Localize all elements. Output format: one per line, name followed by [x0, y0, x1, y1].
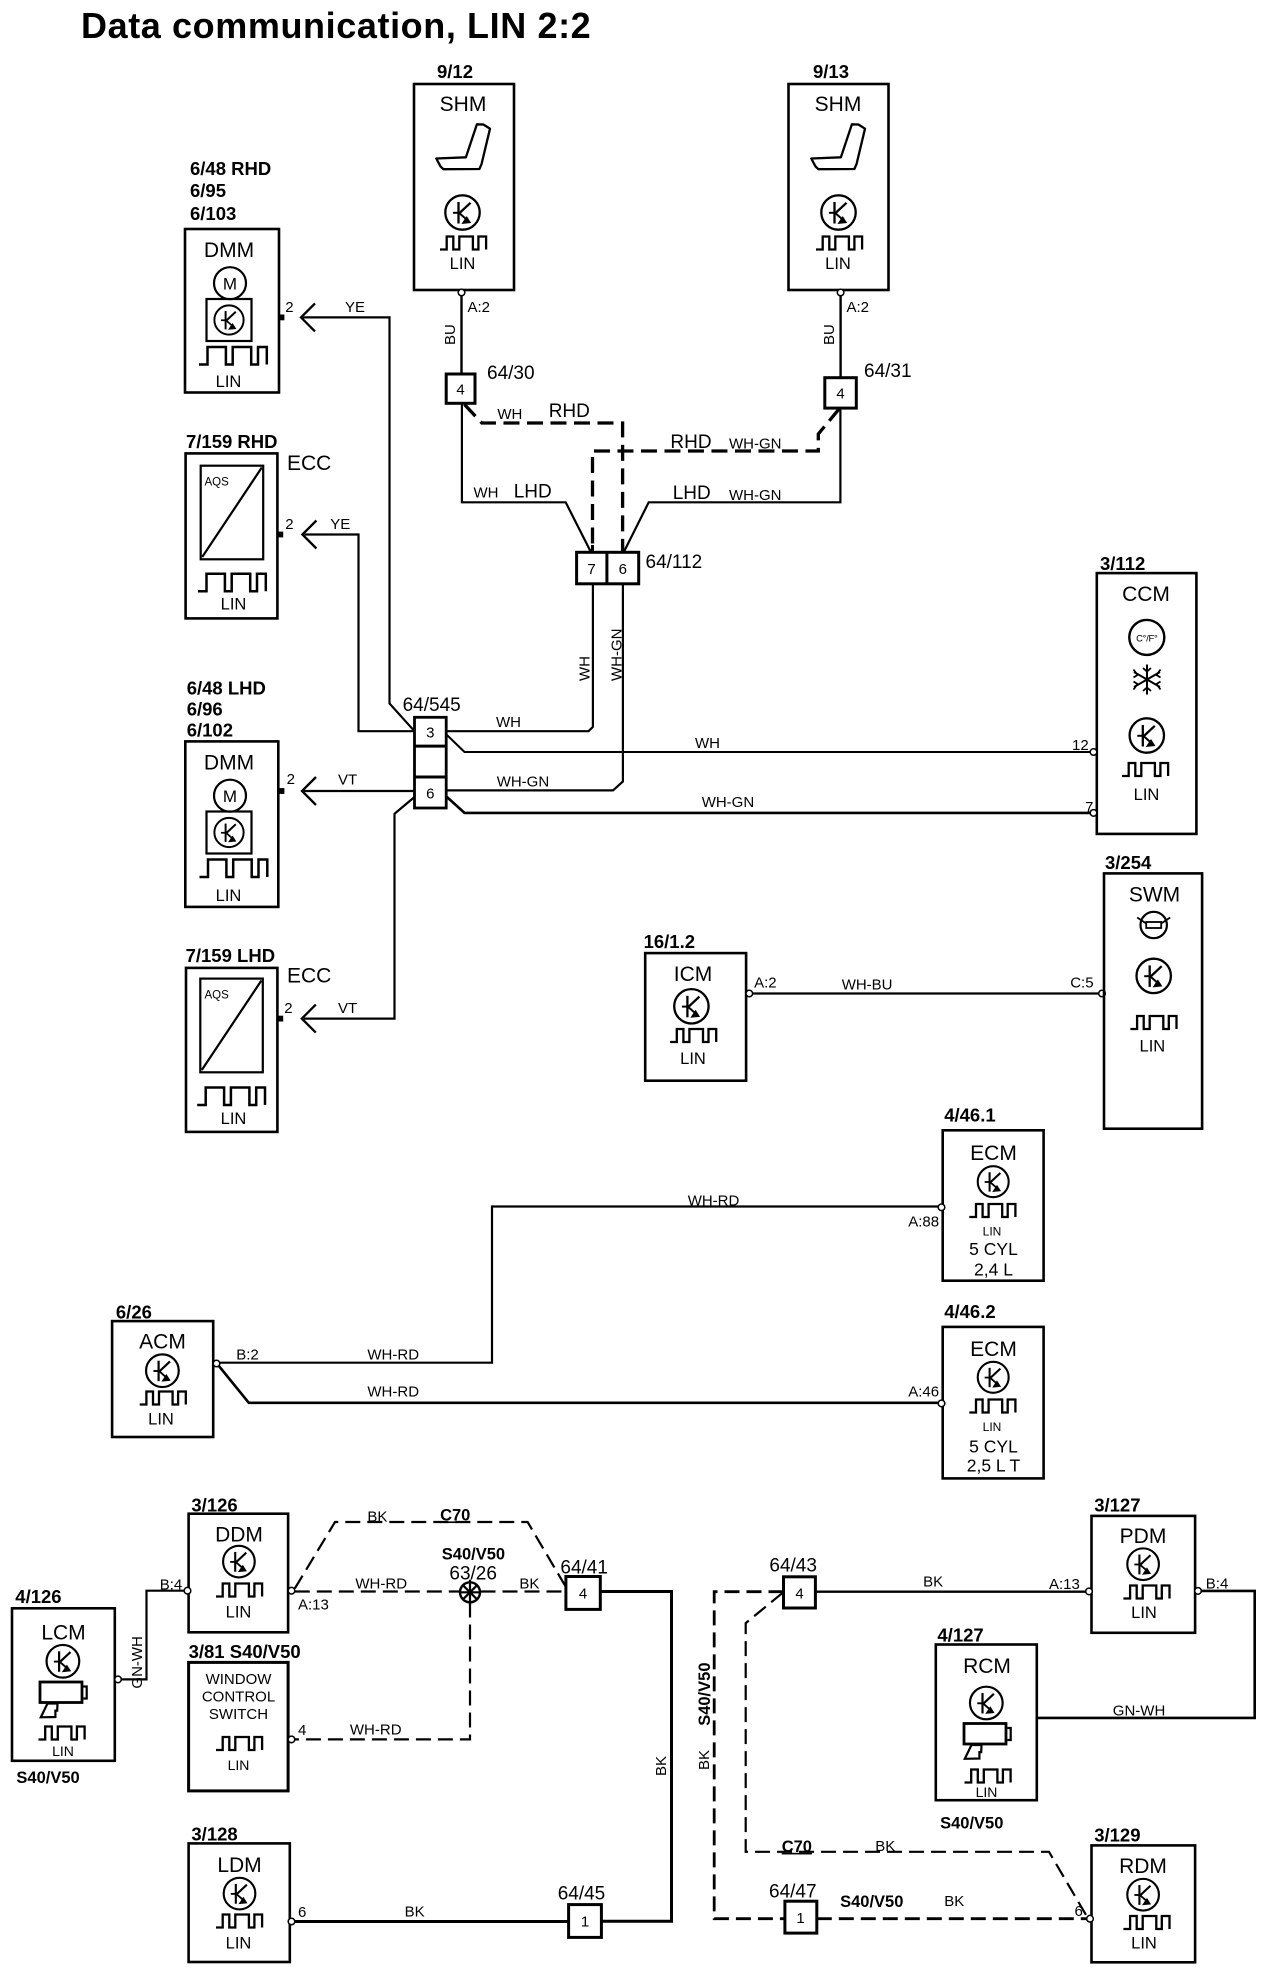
- svg-text:BK: BK: [923, 1574, 943, 1591]
- wire GN-WH from PDM B:4 to RCM: [1037, 1591, 1255, 1718]
- svg-text:WH: WH: [496, 714, 521, 731]
- wire WH RHD from 64/30 to 64/112 pin 6 (dashed): [465, 405, 623, 553]
- svg-text:6: 6: [298, 1904, 306, 1921]
- component DMM 6/48 RHD: [185, 158, 279, 393]
- connector 64/545 pins 3 and 6: [403, 695, 461, 808]
- svg-text:LIN: LIN: [1131, 1604, 1157, 1622]
- svg-text:SWM: SWM: [1129, 884, 1180, 907]
- component ECC 7/159 RHD: [186, 431, 332, 618]
- wire YE from DMM 6/48 RHD pin 2 to 64/545 pin 3: [301, 303, 315, 331]
- svg-text:A:2: A:2: [754, 975, 777, 992]
- svg-text:A:88: A:88: [908, 1214, 939, 1231]
- connector 64/45 pin 1: [558, 1884, 606, 1938]
- pin 2 of DMM 6/48 RHD: [279, 315, 285, 321]
- terminal 12 of CCM: [1090, 749, 1097, 756]
- svg-text:4: 4: [836, 386, 844, 403]
- terminal A:13 of PDM: [1086, 1588, 1093, 1595]
- svg-text:S40/V50: S40/V50: [840, 1893, 903, 1911]
- wire WH-RD from ACM B:2 to ECM 4/46.2 A:46: [219, 1366, 939, 1403]
- svg-text:7: 7: [1085, 799, 1093, 816]
- connector 64/43 pin 4: [769, 1556, 817, 1609]
- svg-text:BK: BK: [875, 1838, 895, 1855]
- terminal of LCM: [115, 1676, 122, 1683]
- svg-text:WH: WH: [497, 406, 522, 423]
- svg-text:ECC: ECC: [287, 965, 331, 988]
- svg-text:RHD: RHD: [670, 432, 711, 453]
- svg-text:ICM: ICM: [674, 963, 713, 986]
- svg-text:C°/F°: C°/F°: [1136, 634, 1158, 645]
- svg-text:64/545: 64/545: [403, 695, 461, 716]
- svg-text:S40/V50: S40/V50: [696, 1662, 714, 1725]
- pin 2 of ECC 7/159 LHD: [277, 1016, 283, 1022]
- wire WH-RD dashed from DDM A:13 to splice 63/26: [295, 1590, 460, 1592]
- svg-text:3/128: 3/128: [191, 1824, 237, 1845]
- svg-text:2: 2: [285, 516, 293, 533]
- svg-text:ACM: ACM: [139, 1331, 186, 1354]
- svg-text:6/26: 6/26: [116, 1301, 152, 1322]
- svg-text:6: 6: [426, 786, 434, 803]
- svg-text:WH-BU: WH-BU: [842, 976, 893, 993]
- svg-text:WH-GN: WH-GN: [609, 629, 626, 682]
- svg-text:LIN: LIN: [983, 1225, 1002, 1239]
- wire WH-GN from 64/545 pin 6 to CCM pin 7: [446, 797, 1090, 813]
- svg-text:64/112: 64/112: [646, 552, 703, 573]
- wire BK dashed C70 from 64/43 down to RDM: [746, 1593, 1088, 1918]
- wire WH-GN from 64/112 pin 6 down to 64/545 pin 6: [446, 584, 623, 791]
- svg-text:B:4: B:4: [160, 1577, 183, 1594]
- svg-text:C70: C70: [440, 1506, 470, 1524]
- svg-text:ECC: ECC: [287, 452, 331, 475]
- svg-text:SHM: SHM: [440, 93, 487, 116]
- component SHM 9/13: [789, 61, 889, 290]
- svg-text:B:2: B:2: [236, 1347, 259, 1364]
- svg-text:SWITCH: SWITCH: [209, 1706, 268, 1723]
- svg-text:LIN: LIN: [226, 1934, 252, 1952]
- svg-text:BU: BU: [442, 324, 459, 345]
- svg-text:2: 2: [287, 771, 295, 788]
- svg-text:LIN: LIN: [148, 1410, 174, 1428]
- wire BK from LDM to 64/45: [295, 1920, 569, 1923]
- svg-text:VT: VT: [338, 1000, 357, 1017]
- component ECC 7/159 LHD: [186, 945, 332, 1132]
- wire WH-RD dashed from splice to WINDOW CONTROL SWITCH: [295, 1603, 470, 1740]
- svg-text:A:46: A:46: [908, 1384, 939, 1401]
- svg-text:BK: BK: [405, 1904, 425, 1921]
- svg-text:6/103: 6/103: [190, 203, 236, 224]
- svg-text:WH-RD: WH-RD: [367, 1347, 419, 1364]
- svg-text:1: 1: [581, 1914, 589, 1931]
- terminal B:4 of PDM: [1195, 1588, 1202, 1595]
- svg-text:3/254: 3/254: [1105, 852, 1152, 873]
- wire BU from SHM 9/13 to 64/31: [839, 296, 841, 378]
- wire WH from 64/545 pin 3 to CCM pin 12: [446, 735, 1090, 753]
- svg-text:WH-GN: WH-GN: [497, 774, 550, 791]
- wire BK from 64/43 to PDM A:13: [815, 1590, 1085, 1592]
- svg-text:3/112: 3/112: [1100, 553, 1145, 574]
- svg-text:6/96: 6/96: [187, 699, 223, 720]
- svg-text:3/129: 3/129: [1094, 1825, 1140, 1846]
- svg-text:2: 2: [284, 1000, 292, 1017]
- svg-text:3/127: 3/127: [1094, 1495, 1140, 1516]
- terminal A:2 of SHM 9/12: [458, 289, 465, 296]
- svg-text:6: 6: [619, 561, 627, 578]
- svg-text:LIN: LIN: [226, 1604, 252, 1622]
- pin 2 of DMM 6/48 LHD: [279, 788, 285, 794]
- svg-text:DDM: DDM: [215, 1524, 263, 1547]
- svg-text:RCM: RCM: [963, 1655, 1011, 1678]
- svg-text:YE: YE: [330, 516, 350, 533]
- wire WH from 64/112 pin 7 down to 64/545 pin 3: [446, 584, 593, 731]
- svg-text:LIN: LIN: [221, 596, 247, 614]
- svg-text:RHD: RHD: [549, 401, 590, 422]
- svg-text:2: 2: [285, 299, 293, 316]
- svg-text:ECM: ECM: [970, 1142, 1017, 1165]
- component RCM 4/127: [936, 1625, 1037, 1833]
- svg-text:PDM: PDM: [1120, 1525, 1167, 1548]
- svg-text:BK: BK: [653, 1756, 670, 1776]
- svg-text:LIN: LIN: [1134, 786, 1160, 804]
- svg-text:LIN: LIN: [976, 1784, 998, 1800]
- svg-text:LIN: LIN: [216, 373, 242, 391]
- svg-text:3/81 S40/V50: 3/81 S40/V50: [189, 1641, 301, 1662]
- component LCM 4/126: [12, 1586, 115, 1787]
- terminal A:2 of ICM: [746, 990, 753, 997]
- svg-text:64/31: 64/31: [864, 361, 912, 382]
- svg-text:SHM: SHM: [815, 93, 862, 116]
- svg-text:BK: BK: [519, 1576, 539, 1593]
- svg-text:DMM: DMM: [204, 239, 254, 262]
- component ICM 16/1.2: [644, 931, 747, 1081]
- svg-text:WH-GN: WH-GN: [729, 436, 782, 453]
- connector 64/30 pin 4: [446, 363, 534, 403]
- svg-text:LIN: LIN: [680, 1050, 706, 1068]
- svg-text:S40/V50: S40/V50: [442, 1546, 505, 1564]
- svg-text:YE: YE: [345, 299, 365, 316]
- svg-text:LIN: LIN: [983, 1420, 1002, 1434]
- svg-text:LHD: LHD: [673, 483, 711, 504]
- svg-text:A:13: A:13: [1049, 1576, 1080, 1593]
- wire VT from ECC 7/159 LHD pin 2 to 64/545 pin 6: [302, 1005, 316, 1033]
- wire stubs at dashed terminations: [465, 405, 840, 553]
- svg-text:A:13: A:13: [298, 1596, 329, 1613]
- svg-text:WH-GN: WH-GN: [702, 794, 755, 811]
- svg-text:S40/V50: S40/V50: [16, 1769, 79, 1787]
- svg-text:1: 1: [796, 1910, 804, 1927]
- terminal 7 of CCM: [1090, 810, 1097, 817]
- svg-text:S40/V50: S40/V50: [940, 1815, 1003, 1833]
- svg-text:4: 4: [579, 1586, 587, 1603]
- svg-text:C70: C70: [782, 1838, 812, 1856]
- component WINDOW CONTROL SWITCH 3/81: [189, 1641, 301, 1791]
- svg-text:WH-RD: WH-RD: [350, 1722, 402, 1739]
- component ACM 6/26: [112, 1301, 213, 1437]
- svg-text:LIN: LIN: [1140, 1038, 1166, 1056]
- svg-text:5 CYL: 5 CYL: [969, 1437, 1018, 1457]
- wire BK from 64/41 down to 64/45: [600, 1592, 671, 1922]
- svg-text:BK: BK: [944, 1893, 964, 1910]
- wire BK dashed from splice to 64/41: [481, 1590, 566, 1592]
- svg-text:3: 3: [426, 725, 434, 742]
- svg-text:RDM: RDM: [1119, 1855, 1167, 1878]
- svg-text:DMM: DMM: [204, 752, 254, 775]
- svg-text:WH-RD: WH-RD: [367, 1384, 419, 1401]
- svg-text:64/45: 64/45: [558, 1884, 606, 1905]
- svg-text:7/159 LHD: 7/159 LHD: [186, 945, 275, 966]
- svg-text:6/48 RHD: 6/48 RHD: [190, 158, 271, 179]
- svg-text:64/43: 64/43: [769, 1556, 817, 1577]
- wire WH-GN RHD from 64/31 to 64/112 pin 7 (dashed): [593, 409, 840, 553]
- svg-text:6/95: 6/95: [190, 180, 226, 201]
- svg-text:WH: WH: [695, 735, 720, 752]
- svg-text:AQS: AQS: [205, 990, 230, 1002]
- svg-text:12: 12: [1072, 737, 1089, 754]
- svg-text:LIN: LIN: [1131, 1935, 1157, 1953]
- terminal 6 of LDM: [288, 1918, 295, 1925]
- wire YE from ECC 7/159 RHD pin 2 to 64/545 pin 3: [302, 521, 316, 549]
- wire GN-WH from LCM to DDM B:4: [121, 1591, 184, 1680]
- terminal A:88 of ECM 4/46.1: [938, 1204, 945, 1211]
- terminal 6 of RDM: [1087, 1915, 1094, 1922]
- svg-text:A:2: A:2: [847, 299, 870, 316]
- svg-text:LIN: LIN: [221, 1110, 247, 1128]
- svg-text:LIN: LIN: [450, 255, 476, 273]
- svg-text:6/102: 6/102: [187, 720, 233, 741]
- terminal A:46 of ECM 4/46.2: [938, 1400, 945, 1407]
- svg-text:GN-WH: GN-WH: [129, 1636, 146, 1689]
- wire WH LHD from 64/30 to 64/112 pin 7 (solid): [462, 403, 591, 552]
- svg-text:LIN: LIN: [825, 255, 851, 273]
- svg-text:4: 4: [298, 1722, 306, 1739]
- svg-text:64/47: 64/47: [769, 1882, 817, 1903]
- component LDM 3/128: [189, 1824, 290, 1963]
- svg-text:LHD: LHD: [514, 482, 552, 503]
- terminal B:2 of ACM: [213, 1360, 220, 1367]
- svg-text:7: 7: [587, 561, 595, 578]
- wire BK dashed C70 from DDM to 64/41: [295, 1522, 566, 1589]
- component ECM 4/46.2: [943, 1301, 1044, 1479]
- svg-text:WH: WH: [474, 485, 499, 502]
- connector 64/112 pins 7 and 6: [577, 552, 703, 584]
- connector 64/41 pin 4: [560, 1558, 608, 1610]
- component DMM 6/48 LHD: [185, 678, 278, 907]
- svg-text:9/13: 9/13: [813, 61, 849, 82]
- svg-text:BK: BK: [696, 1750, 713, 1770]
- component SHM 9/12: [414, 61, 514, 290]
- component DDM 3/126: [189, 1495, 289, 1633]
- svg-text:4/127: 4/127: [937, 1625, 983, 1646]
- svg-text:ECM: ECM: [970, 1338, 1017, 1361]
- wire S40/V50 BK dashed from 64/47 to RDM pin 6: [817, 1917, 1087, 1920]
- wire WH-RD from ACM B:2 to ECM 4/46.1 A:88: [220, 1207, 938, 1363]
- component ECM 4/46.1: [943, 1104, 1044, 1280]
- svg-text:WH-RD: WH-RD: [355, 1576, 407, 1593]
- svg-text:GN-WH: GN-WH: [1113, 1703, 1166, 1720]
- svg-text:9/12: 9/12: [437, 61, 473, 82]
- svg-text:WH-GN: WH-GN: [729, 487, 782, 504]
- svg-text:C:5: C:5: [1070, 975, 1093, 992]
- wire WH-BU from ICM to SWM C:5: [753, 992, 1099, 994]
- svg-text:2,4 L: 2,4 L: [974, 1260, 1013, 1280]
- terminal A:13 of DDM: [288, 1587, 295, 1594]
- svg-text:BU: BU: [821, 324, 838, 345]
- svg-text:LCM: LCM: [41, 1622, 85, 1645]
- pin 2 of ECC 7/159 RHD: [277, 532, 283, 538]
- terminal C:5 of SWM: [1099, 990, 1106, 997]
- svg-text:LIN: LIN: [52, 1743, 74, 1759]
- svg-text:4/46.1: 4/46.1: [944, 1104, 995, 1125]
- svg-text:LDM: LDM: [217, 1854, 261, 1877]
- connector 64/47 pin 1: [769, 1882, 817, 1934]
- svg-text:CONTROL: CONTROL: [202, 1689, 275, 1706]
- svg-text:Data communication, LIN 2:2: Data communication, LIN 2:2: [81, 5, 591, 46]
- svg-text:3/126: 3/126: [191, 1495, 237, 1516]
- terminal 4 of WINDOW CONTROL SWITCH: [288, 1736, 295, 1743]
- terminal B:4 of DDM: [184, 1587, 191, 1594]
- svg-text:5 CYL: 5 CYL: [969, 1239, 1018, 1259]
- wire VT from DMM 6/48 LHD pin 2 to 64/545 pin 6: [302, 777, 316, 805]
- svg-text:2,5 L T: 2,5 L T: [967, 1456, 1021, 1476]
- terminal A:2 of SHM 9/13: [837, 289, 844, 296]
- svg-text:AQS: AQS: [205, 477, 230, 489]
- svg-text:LIN: LIN: [228, 1757, 250, 1773]
- svg-text:64/30: 64/30: [487, 363, 535, 384]
- svg-text:16/1.2: 16/1.2: [644, 931, 695, 952]
- component RDM 3/129: [1092, 1825, 1196, 1963]
- svg-text:4/46.2: 4/46.2: [944, 1301, 995, 1322]
- svg-text:6/48 LHD: 6/48 LHD: [187, 678, 266, 699]
- svg-text:BK: BK: [367, 1509, 387, 1526]
- svg-text:7/159 RHD: 7/159 RHD: [186, 431, 278, 452]
- connector 64/31 pin 4: [825, 361, 912, 408]
- svg-text:4/126: 4/126: [15, 1586, 61, 1607]
- wire BU from SHM 9/12 to 64/30: [460, 296, 462, 374]
- svg-text:63/26: 63/26: [449, 1564, 497, 1585]
- wire WH-GN LHD from 64/31 to 64/112 pin 6 (solid): [624, 408, 841, 552]
- svg-text:4: 4: [456, 382, 464, 399]
- svg-text:WINDOW: WINDOW: [206, 1671, 273, 1688]
- wire S40/V50 BK dashed from 64/43 down to 64/47: [714, 1592, 785, 1919]
- svg-text:LIN: LIN: [216, 887, 242, 905]
- svg-text:WH: WH: [577, 656, 594, 681]
- svg-text:4: 4: [795, 1586, 803, 1603]
- svg-text:WH-RD: WH-RD: [688, 1192, 740, 1209]
- svg-text:CCM: CCM: [1122, 583, 1170, 606]
- component PDM 3/127: [1092, 1495, 1196, 1633]
- splice 63/26: [460, 1580, 480, 1605]
- component CCM 3/112: [1097, 553, 1197, 834]
- svg-text:A:2: A:2: [468, 299, 491, 316]
- component SWM 3/254: [1104, 852, 1202, 1129]
- svg-text:VT: VT: [338, 772, 357, 789]
